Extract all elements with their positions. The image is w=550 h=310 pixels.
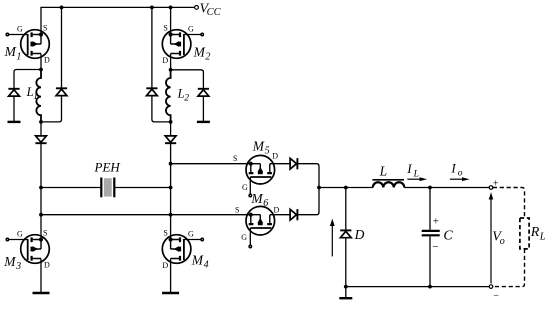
svg-text:G: G: [17, 25, 23, 34]
svg-text:I: I: [450, 160, 456, 175]
svg-text:−: −: [493, 291, 499, 302]
svg-text:S: S: [235, 205, 239, 214]
wire M4 source to rail: [170, 215, 172, 240]
svg-text:G: G: [188, 230, 194, 239]
inductor L buck: [372, 180, 404, 188]
diode D (freewheeling): [340, 230, 351, 237]
series diode column 2 (pointing down): [165, 136, 176, 143]
arrow Vo: [489, 192, 494, 283]
svg-text:D: D: [44, 261, 50, 270]
piezo element PEH: [101, 178, 114, 198]
inductor L2: [166, 70, 171, 122]
svg-text:S: S: [43, 24, 47, 33]
svg-text:C: C: [443, 229, 453, 244]
diode clamp left (to ground): [8, 89, 19, 96]
ground clamp left: [8, 121, 21, 123]
wire to clamp diode right: [171, 70, 204, 89]
svg-text:M: M: [252, 138, 265, 153]
wire freewheel right of L1 to L1 bottom: [41, 96, 62, 122]
node bus output: [317, 186, 321, 190]
gate terminal M4: [201, 238, 203, 240]
node M2 drain junction: [169, 68, 173, 72]
ground buck: [339, 297, 352, 299]
ground M4: [162, 292, 179, 294]
svg-text:G: G: [241, 233, 247, 242]
svg-text:S: S: [43, 229, 47, 238]
arrow Io: [450, 177, 470, 181]
wire PEH right node to bottom rail: [170, 188, 172, 215]
transistor M4: [162, 235, 191, 264]
svg-text:D: D: [44, 55, 50, 64]
svg-text:3: 3: [15, 261, 21, 272]
wire dashed load top: [493, 188, 525, 219]
wire gate M1: [7, 34, 27, 36]
wire L1 bottom to series diode: [40, 122, 42, 136]
svg-text:M: M: [4, 44, 17, 59]
wire buck bottom rail: [346, 286, 489, 288]
svg-text:1: 1: [33, 92, 38, 102]
svg-text:CC: CC: [207, 7, 222, 18]
svg-text:o: o: [500, 236, 505, 247]
wire gate M2: [184, 34, 202, 36]
node L1 bottom junction: [39, 120, 43, 124]
svg-text:G: G: [188, 25, 194, 34]
node buck ground: [344, 285, 348, 289]
wire gate M5: [249, 177, 251, 195]
svg-text:−: −: [432, 241, 438, 253]
diode series M5: [290, 158, 297, 169]
node L2 bottom junction: [169, 120, 173, 124]
wire ground stub buck: [345, 287, 347, 299]
node rail-diode2: [150, 6, 154, 10]
diode rail-side of L2: [146, 88, 157, 95]
gate terminal M1: [6, 33, 8, 35]
wire M3 source to rail: [40, 215, 42, 240]
resistor RL (dashed box): [520, 218, 529, 249]
wire PEH node to bottom rail: [40, 188, 42, 215]
node diode D tap: [344, 186, 348, 190]
node bottom rail M4: [169, 213, 173, 217]
svg-text:D: D: [274, 205, 280, 214]
svg-text:M: M: [250, 191, 263, 206]
svg-text:G: G: [17, 230, 23, 239]
wire gate M6: [249, 228, 251, 246]
svg-text:1: 1: [16, 52, 21, 63]
wire M2 drain: [170, 54, 172, 70]
wire bus to buck input: [319, 187, 373, 189]
svg-text:6: 6: [263, 198, 268, 209]
wire capacitor lower: [429, 236, 431, 286]
wire M5 source row: [171, 163, 251, 165]
node rail-diode1: [60, 6, 64, 10]
arrow IL: [407, 177, 427, 181]
svg-text:L: L: [379, 164, 388, 179]
svg-text:D: D: [162, 261, 168, 270]
wire below clamp diode left: [13, 96, 15, 122]
wire M6 drain: [270, 214, 290, 216]
svg-text:D: D: [162, 56, 168, 65]
wire M4 drain to ground: [170, 259, 172, 294]
svg-text:G: G: [242, 183, 248, 192]
svg-text:I: I: [406, 161, 412, 176]
capacitor C: [422, 231, 440, 235]
svg-text:4: 4: [204, 260, 209, 271]
svg-text:2: 2: [205, 52, 210, 63]
gate terminal M2: [201, 33, 203, 35]
wire M5 diode to bus: [297, 164, 319, 188]
wire PEH right: [115, 187, 170, 189]
transistor M5: [246, 155, 275, 184]
gate terminal M3: [6, 238, 8, 240]
transistor M1: [21, 30, 50, 59]
wire capacitor upper: [429, 188, 431, 230]
diode clamp right (to ground): [198, 89, 209, 96]
wire gate M3: [7, 239, 27, 241]
node PEH right: [169, 186, 173, 190]
node M5 source tap: [169, 162, 173, 166]
wire buck mid: [404, 187, 489, 189]
wire diode D branch upper: [345, 188, 347, 231]
VCC terminal: [195, 6, 199, 10]
transistor M3: [21, 235, 50, 264]
node M1 drain junction: [39, 68, 43, 72]
wire diode D branch lower: [345, 238, 347, 287]
wire dashed load bottom: [493, 249, 525, 287]
diode rail-side of L1: [56, 88, 67, 95]
svg-text:D: D: [272, 151, 278, 160]
node PEH left: [39, 186, 43, 190]
svg-text:R: R: [530, 225, 540, 240]
wire from rail to freewheel diode right of L1: [61, 7, 63, 88]
output terminal plus: [489, 186, 493, 190]
svg-text:2: 2: [184, 94, 189, 104]
wire top VCC rail: [41, 7, 196, 34]
wire gate M4: [184, 239, 202, 241]
transistor M6: [246, 206, 275, 235]
ground M3: [33, 292, 50, 294]
node capacitor tap: [428, 186, 432, 190]
node capacitor bottom: [428, 285, 432, 289]
wire bottom rail: [41, 214, 251, 216]
wire L2 bottom to series diode: [170, 122, 172, 136]
wire M3 drain to ground: [40, 259, 42, 294]
wire freewheel left of L2 to L2 bottom: [152, 96, 171, 122]
node bottom rail M3: [39, 213, 43, 217]
gate terminal M5: [249, 194, 251, 196]
wire M5 node to PEH right node: [170, 164, 172, 188]
wire to clamp diode left: [14, 70, 41, 89]
current arrow at diode D: [330, 219, 335, 257]
svg-text:PEH: PEH: [94, 160, 121, 175]
svg-text:+: +: [433, 216, 439, 228]
wire series diode 2 to M5 node: [170, 143, 172, 164]
gate terminal M6: [249, 245, 251, 247]
svg-text:S: S: [233, 154, 237, 163]
wire M6 diode to bus: [297, 188, 319, 215]
svg-text:M: M: [3, 254, 16, 269]
wire M5 drain: [270, 163, 290, 165]
svg-text:D: D: [354, 227, 365, 242]
wire PEH left: [41, 187, 100, 189]
ground clamp right: [197, 121, 210, 123]
svg-text:o: o: [458, 169, 463, 179]
svg-text:M: M: [193, 44, 206, 59]
svg-text:S: S: [163, 229, 167, 238]
wire series diode 1 to PEH node: [40, 143, 42, 187]
wire below clamp diode right: [202, 96, 204, 122]
output terminal minus: [489, 285, 493, 289]
transistor M2: [162, 30, 191, 59]
svg-text:M: M: [191, 252, 204, 267]
diode series M6: [290, 209, 297, 220]
svg-text:L: L: [539, 232, 546, 243]
svg-text:S: S: [163, 24, 167, 33]
node rail-M2 source: [169, 6, 173, 10]
wire M1 drain: [40, 54, 42, 70]
svg-text:5: 5: [265, 146, 270, 157]
svg-text:L: L: [413, 169, 419, 179]
series diode column 1 (pointing down): [35, 136, 46, 143]
wire from rail to freewheel diode left of L2: [151, 7, 153, 88]
inductor L1: [36, 70, 41, 122]
